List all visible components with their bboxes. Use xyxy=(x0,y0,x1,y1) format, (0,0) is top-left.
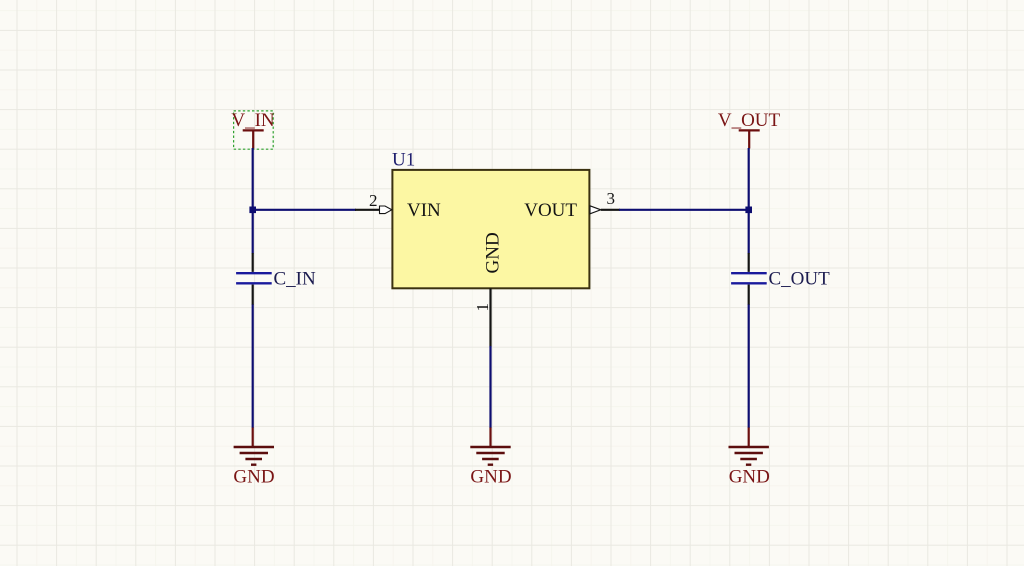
op U1 component body xyxy=(392,170,589,288)
capacitor C_OUT xyxy=(731,253,830,305)
wire input net horizontal (junction to U1 pin 2) xyxy=(253,209,356,211)
svg-text:U1: U1 xyxy=(392,150,415,171)
junction node V_OUT/C_OUT xyxy=(745,207,752,214)
junction node V_IN/C_IN xyxy=(249,207,256,214)
svg-text:C_IN: C_IN xyxy=(274,269,317,290)
wire V_IN rail upper (power port to junction to C_IN) xyxy=(252,148,254,254)
svg-text:VIN: VIN xyxy=(407,200,441,221)
svg-text:2: 2 xyxy=(369,191,378,210)
svg-text:3: 3 xyxy=(607,189,616,208)
ground GND (center) xyxy=(470,428,511,488)
pin 1 (GND) lead xyxy=(489,288,491,346)
pin 3 lead xyxy=(601,209,620,211)
wire C_IN to GND xyxy=(252,305,254,429)
wire output net (pin 3 to junction) xyxy=(619,209,749,211)
svg-text:1: 1 xyxy=(473,303,492,312)
svg-text:GND: GND xyxy=(470,467,511,488)
svg-text:V_IN: V_IN xyxy=(231,110,275,131)
svg-text:GND: GND xyxy=(483,232,504,273)
pin 2 input arrow xyxy=(380,206,392,214)
pin 3 (VOUT) output arrow xyxy=(590,206,601,214)
svg-text:GND: GND xyxy=(233,467,274,488)
wire C_OUT to GND xyxy=(748,305,750,429)
wire pin 1 to GND xyxy=(489,346,491,428)
power port V_OUT xyxy=(718,110,781,149)
ground GND (left) xyxy=(233,428,274,488)
capacitor C_IN xyxy=(236,253,316,305)
svg-text:VOUT: VOUT xyxy=(524,200,577,221)
svg-text:GND: GND xyxy=(729,467,770,488)
wire V_OUT rail upper (power port to junction to C_OUT) xyxy=(748,148,750,254)
ground GND (right) xyxy=(729,428,770,488)
svg-text:C_OUT: C_OUT xyxy=(769,269,831,290)
power port V_IN xyxy=(231,110,275,149)
pin 2 (VIN) lead xyxy=(355,209,380,211)
selection highlight around power port V_IN xyxy=(234,111,274,149)
svg-text:V_OUT: V_OUT xyxy=(718,110,781,131)
